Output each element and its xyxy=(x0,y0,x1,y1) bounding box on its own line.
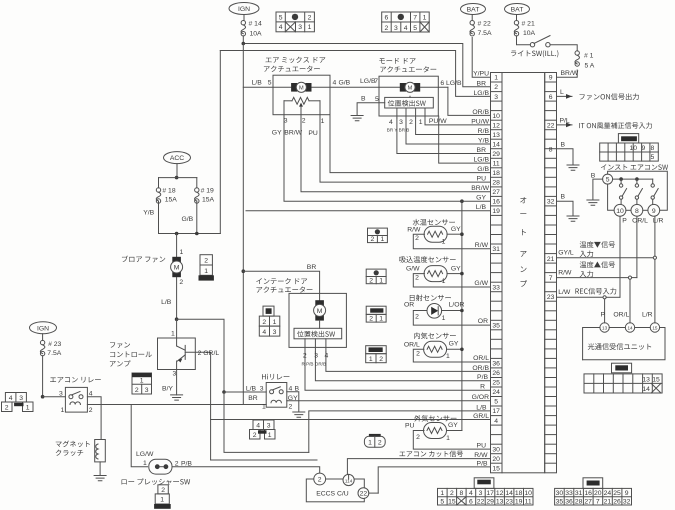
svg-text:3: 3 xyxy=(394,25,398,32)
svg-text:B: B xyxy=(591,173,596,180)
auto amp right pin column xyxy=(545,73,557,473)
fuse #18 15A xyxy=(156,188,160,192)
svg-text:G/B: G/B xyxy=(182,216,194,223)
svg-text:LG/B: LG/B xyxy=(446,80,462,87)
wire ACC rail up to LG/B run xyxy=(219,51,221,234)
svg-text:P: P xyxy=(622,218,627,225)
svg-text:R: R xyxy=(480,384,485,391)
Hi relay box xyxy=(266,383,287,408)
auto amp connector: left pin column xyxy=(491,73,503,473)
position SW box intake xyxy=(294,328,342,339)
connector grid sunload xyxy=(366,306,386,314)
svg-text:5: 5 xyxy=(606,177,610,184)
svg-text:15: 15 xyxy=(448,498,456,505)
wire B pin 8 to ground xyxy=(557,149,574,165)
svg-text:R/W: R/W xyxy=(474,452,488,459)
svg-text:BAT: BAT xyxy=(511,7,524,14)
inst SW unit circle 5 xyxy=(603,174,613,184)
svg-text:7: 7 xyxy=(596,498,600,505)
svg-text:9: 9 xyxy=(625,490,629,497)
connector grid Hi relay xyxy=(253,420,274,430)
svg-text:2: 2 xyxy=(415,235,419,242)
ECCS pin 114 xyxy=(343,474,354,485)
svg-text:14: 14 xyxy=(642,386,650,393)
wire R intake door SW pin2 to pin 24 xyxy=(305,352,491,390)
svg-text:1: 1 xyxy=(140,378,144,385)
svg-text:# 1: # 1 xyxy=(584,53,594,60)
svg-text:31: 31 xyxy=(492,246,500,253)
svg-text:GY: GY xyxy=(288,395,298,402)
svg-text:11: 11 xyxy=(525,498,532,505)
wire L/B via Z route to pin 17 xyxy=(309,411,491,453)
ECCS C/U xyxy=(211,459,317,461)
svg-text:2: 2 xyxy=(409,119,413,126)
svg-text:2: 2 xyxy=(204,258,208,265)
fuse #22 7.5A xyxy=(470,21,474,25)
svg-text:23: 23 xyxy=(547,294,555,301)
svg-text:3: 3 xyxy=(145,387,149,394)
svg-text:1: 1 xyxy=(321,118,325,125)
svg-text:1: 1 xyxy=(494,75,498,82)
svg-text:3: 3 xyxy=(267,423,271,430)
svg-text:3: 3 xyxy=(173,370,177,377)
label air mix door actuator xyxy=(266,57,326,63)
connector grid aircon relay xyxy=(5,393,26,403)
svg-text:17: 17 xyxy=(486,490,494,497)
svg-text:L/R: L/R xyxy=(642,311,653,318)
sensor common line GY xyxy=(461,201,463,430)
svg-text:36: 36 xyxy=(492,361,500,368)
fan control amp box xyxy=(158,338,196,370)
svg-text:PU: PU xyxy=(405,423,415,430)
connector grid fan amp xyxy=(132,373,152,394)
svg-text:32: 32 xyxy=(547,199,555,206)
svg-text:BR: BR xyxy=(477,147,487,154)
svg-text:B: B xyxy=(561,141,566,148)
wire L/B branch right xyxy=(177,319,224,392)
ECCS pin 2 xyxy=(314,473,326,485)
svg-text:29: 29 xyxy=(492,151,500,158)
svg-text:28: 28 xyxy=(492,180,500,187)
svg-text:ECCS C/U: ECCS C/U xyxy=(316,490,349,497)
svg-text:2: 2 xyxy=(161,487,165,494)
svg-text:14: 14 xyxy=(505,490,513,497)
svg-text:22: 22 xyxy=(477,498,485,505)
svg-text:26: 26 xyxy=(613,498,621,505)
svg-text:35: 35 xyxy=(556,498,564,505)
svg-text:6: 6 xyxy=(469,498,473,505)
inst aircon SW connector grid xyxy=(618,134,638,143)
wire B circle5 to ground xyxy=(593,179,603,199)
svg-text:G/OR: G/OR xyxy=(472,394,489,401)
svg-text:GY: GY xyxy=(451,265,461,272)
svg-text:# 23: # 23 xyxy=(48,341,61,348)
air mix door actuator box xyxy=(273,75,330,115)
svg-text:L/W: L/W xyxy=(558,289,571,296)
pot terminals down xyxy=(283,101,285,119)
svg-text:BR: BR xyxy=(477,80,487,87)
svg-text:Y/B: Y/B xyxy=(478,138,489,145)
connector grid top right xyxy=(382,12,430,32)
wire Hi relay B to ground xyxy=(287,392,299,412)
svg-text:PU: PU xyxy=(477,442,487,449)
wire L/W REC signal pin 23 xyxy=(557,296,605,298)
mode SW pin stubs xyxy=(396,108,398,118)
svg-text:2: 2 xyxy=(415,275,419,282)
svg-text:2 GR/L: 2 GR/L xyxy=(198,350,220,357)
svg-text:L: L xyxy=(560,89,564,96)
svg-text:3: 3 xyxy=(314,352,318,359)
wire L/B to pin 19 xyxy=(246,210,491,212)
SW rail xyxy=(613,178,653,180)
svg-text:G/W: G/W xyxy=(406,266,420,273)
svg-text:20: 20 xyxy=(594,490,602,497)
svg-text:# 21: # 21 xyxy=(522,21,535,28)
svg-text:R/B: R/B xyxy=(478,128,490,135)
svg-text:Y/PU: Y/PU xyxy=(473,70,489,77)
label mode door actuator xyxy=(379,58,415,64)
wire P/L IT ON signal from pin 22 xyxy=(557,124,573,126)
wire B mode SW pin5 to ground xyxy=(357,103,385,116)
wire L/B to Hi relay xyxy=(224,391,266,393)
svg-text:L/OR: L/OR xyxy=(449,301,465,308)
svg-text:13: 13 xyxy=(602,326,608,331)
svg-text:12: 12 xyxy=(496,490,504,497)
svg-text:2: 2 xyxy=(369,277,373,284)
svg-text:13: 13 xyxy=(642,377,650,384)
svg-text:23: 23 xyxy=(505,498,513,505)
fuse #19 15A xyxy=(195,188,199,192)
svg-text:4: 4 xyxy=(325,352,329,359)
svg-text:1: 1 xyxy=(180,249,184,256)
wire relay coil out xyxy=(87,404,266,406)
wire OR/B intake door SW pin4 to pin 26 xyxy=(326,352,491,371)
wiper arrow air mix pot xyxy=(300,104,302,108)
wire OR sunload sensor to pin 35 xyxy=(413,311,490,326)
connector grid intake 2x2 xyxy=(263,306,274,316)
wire mode motor right exit xyxy=(421,86,448,88)
svg-text:IGN: IGN xyxy=(238,6,250,13)
svg-text:L/B: L/B xyxy=(161,299,172,306)
svg-text:2: 2 xyxy=(308,14,312,21)
svg-text:7: 7 xyxy=(549,275,553,282)
svg-text:10: 10 xyxy=(492,113,500,120)
svg-text:1: 1 xyxy=(446,435,450,442)
svg-text:8: 8 xyxy=(460,490,464,497)
mode door actuator box xyxy=(379,76,438,116)
fuse #1 5A xyxy=(575,51,579,55)
svg-text:3: 3 xyxy=(284,118,288,125)
svg-text:6: 6 xyxy=(549,94,553,101)
svg-text:22: 22 xyxy=(360,491,368,498)
wire G/B air mix to pin 18 xyxy=(330,87,491,172)
svg-text:1: 1 xyxy=(379,316,383,323)
svg-text:11: 11 xyxy=(493,161,500,168)
svg-text:GY: GY xyxy=(476,195,486,202)
wire LG/B from ACC line to pin 3 xyxy=(220,51,490,97)
svg-text:3: 3 xyxy=(260,385,264,392)
svg-text:24: 24 xyxy=(492,389,500,396)
junction IGN feed xyxy=(242,42,246,46)
svg-text:32: 32 xyxy=(623,498,631,505)
svg-text:G/B: G/B xyxy=(339,80,351,87)
wire GY air mix pot pin3 to pin 16 xyxy=(284,119,491,201)
svg-text:1: 1 xyxy=(369,356,373,363)
wire P/B to pin 15 xyxy=(378,467,490,493)
ECCS pin 22 xyxy=(358,488,369,499)
svg-text:8: 8 xyxy=(651,145,655,152)
wire BR/W air mix pot pin2 to pin 27 xyxy=(301,119,491,192)
connector oval ambient sensor xyxy=(369,434,381,437)
svg-text:18: 18 xyxy=(492,170,500,177)
connector grid top left xyxy=(276,12,314,32)
svg-text:1: 1 xyxy=(423,14,427,21)
svg-text:15: 15 xyxy=(652,326,658,331)
power oval IGN #14 xyxy=(229,3,259,15)
svg-text:2: 2 xyxy=(371,236,375,243)
svg-text:27: 27 xyxy=(492,189,500,196)
wire IGN vertical bus down xyxy=(242,44,244,405)
svg-text:2: 2 xyxy=(135,387,139,394)
svg-text:PU: PU xyxy=(477,176,487,183)
svg-text:R/W: R/W xyxy=(407,227,421,234)
connector grid optical unit xyxy=(612,363,632,373)
blower fan xyxy=(122,256,165,263)
wire GR/L fan amp branch to pin 4 xyxy=(211,419,491,421)
svg-text:2: 2 xyxy=(416,351,420,358)
wire PU air mix pot pin1 to pin 28 xyxy=(320,119,491,182)
svg-text:2: 2 xyxy=(89,407,93,414)
svg-text:2: 2 xyxy=(385,25,389,32)
svg-text:5: 5 xyxy=(268,80,272,87)
svg-text:21: 21 xyxy=(547,256,555,263)
magnet clutch box xyxy=(95,440,106,462)
junction L/B split xyxy=(175,317,179,321)
svg-text:OR/B: OR/B xyxy=(472,109,489,116)
svg-text:25: 25 xyxy=(492,380,500,387)
motor M air mix xyxy=(291,83,297,92)
svg-text:OR/L: OR/L xyxy=(632,218,648,225)
wire GR/L output xyxy=(185,352,210,460)
svg-text:Y/B: Y/B xyxy=(143,210,154,217)
svg-text:1: 1 xyxy=(171,331,175,338)
svg-text:1: 1 xyxy=(442,239,446,246)
svg-text:20: 20 xyxy=(492,456,500,463)
svg-text:M: M xyxy=(408,85,413,91)
svg-text:2: 2 xyxy=(179,279,183,286)
svg-text:2: 2 xyxy=(369,316,373,323)
svg-text:2: 2 xyxy=(289,403,293,410)
svg-text:4: 4 xyxy=(333,80,337,87)
svg-text:7.5A: 7.5A xyxy=(478,30,492,37)
svg-text:7: 7 xyxy=(413,14,417,21)
junction L/B at Hi relay xyxy=(222,390,226,394)
svg-text:27: 27 xyxy=(584,498,592,505)
svg-text:B: B xyxy=(561,194,566,201)
svg-text:# 22: # 22 xyxy=(478,21,491,28)
svg-text:8: 8 xyxy=(549,146,553,153)
svg-text:1: 1 xyxy=(442,315,446,322)
svg-text:1: 1 xyxy=(440,490,444,497)
svg-text:15A: 15A xyxy=(165,197,178,204)
svg-text:6: 6 xyxy=(440,80,444,87)
wire light switch to fuse 1 xyxy=(550,45,577,51)
svg-text:3: 3 xyxy=(479,490,483,497)
svg-text:30: 30 xyxy=(556,490,564,497)
svg-text:IGN: IGN xyxy=(37,325,49,332)
wire BR/W from fuse 1 to pin 9 xyxy=(557,70,578,77)
svg-text:OR: OR xyxy=(404,302,414,309)
svg-text:R P/B OR/B: R P/B OR/B xyxy=(302,361,327,366)
wire R/W aircon cut signal to pin 20 xyxy=(347,459,490,479)
svg-text:2: 2 xyxy=(253,432,257,439)
svg-text:28: 28 xyxy=(575,498,583,505)
connector grid low pressure SW xyxy=(158,485,168,494)
potentiometer air mix xyxy=(292,97,309,104)
svg-text:1: 1 xyxy=(381,236,385,243)
bottom connector table left xyxy=(474,478,494,489)
wire PU ambient sensor to pin 30 xyxy=(413,431,490,450)
sunload sensor xyxy=(410,294,451,301)
svg-text:GR/L: GR/L xyxy=(473,413,489,420)
svg-text:35: 35 xyxy=(492,323,500,330)
wire LG/B mode box to pin 11 xyxy=(439,116,491,163)
svg-text:13: 13 xyxy=(492,132,500,139)
svg-text:P/B: P/B xyxy=(477,374,488,381)
svg-text:1: 1 xyxy=(268,432,272,439)
svg-text:GY: GY xyxy=(272,129,282,136)
svg-text:14: 14 xyxy=(627,326,633,331)
wire B pin 32 to ground xyxy=(557,201,574,216)
fuse #21 10A xyxy=(514,21,518,25)
wire L/B feed to air mix motor xyxy=(243,86,290,88)
wire fuse bottom rail xyxy=(158,201,160,233)
svg-text:15: 15 xyxy=(652,377,660,384)
wire ACC fuse rail top xyxy=(159,177,197,179)
svg-text:OR: OR xyxy=(478,318,488,325)
svg-text:GY: GY xyxy=(451,226,461,233)
incar sensor xyxy=(414,332,456,339)
svg-text:1: 1 xyxy=(143,460,147,467)
svg-text:1: 1 xyxy=(61,407,65,414)
wire G/W intake air temp sensor to pin 33 xyxy=(413,274,490,287)
label intake door actuator xyxy=(256,278,307,284)
svg-text:1: 1 xyxy=(308,24,312,31)
optical communication receiver unit xyxy=(600,323,609,332)
svg-text:15: 15 xyxy=(492,465,500,472)
svg-text:L/B: L/B xyxy=(246,385,257,392)
svg-text:2: 2 xyxy=(379,356,383,363)
wire PU/W position SW pin1 to pin 12 xyxy=(425,118,491,125)
intake SW pin stubs xyxy=(304,339,306,352)
svg-text:14: 14 xyxy=(492,141,500,148)
svg-text:2: 2 xyxy=(378,440,382,447)
svg-text:5: 5 xyxy=(651,154,655,161)
svg-text:G/W: G/W xyxy=(474,280,488,287)
wire L/B down to Z-route xyxy=(224,392,309,452)
wire R/W temp-up signal pin 7 xyxy=(557,277,631,279)
svg-text:10A: 10A xyxy=(250,31,263,38)
svg-text:1: 1 xyxy=(446,353,450,360)
svg-text:10: 10 xyxy=(524,490,532,497)
svg-text:5: 5 xyxy=(413,25,417,32)
Hi relay xyxy=(262,374,289,380)
svg-text:7.5A: 7.5A xyxy=(47,350,61,357)
svg-text:LG/B: LG/B xyxy=(474,157,490,164)
svg-text:OR/L: OR/L xyxy=(473,355,489,362)
svg-text:7: 7 xyxy=(374,78,378,85)
motor M intake door xyxy=(315,300,324,306)
svg-text:26: 26 xyxy=(492,370,500,377)
fuse #23 7.5A xyxy=(40,340,44,344)
wire OR/L incar sensor to pin 36 xyxy=(413,349,490,362)
svg-text:1: 1 xyxy=(368,440,372,447)
wire R/W water temp sensor to pin 31 xyxy=(413,234,490,249)
svg-text:BAT: BAT xyxy=(467,7,480,14)
water temp sensor xyxy=(413,219,455,226)
svg-text:4: 4 xyxy=(404,25,408,32)
svg-text:M: M xyxy=(174,264,180,271)
svg-text:3: 3 xyxy=(273,329,277,336)
svg-text:1: 1 xyxy=(160,497,164,504)
fuse #14 10A xyxy=(241,21,245,25)
svg-text:18: 18 xyxy=(515,490,523,497)
svg-text:21: 21 xyxy=(604,498,612,505)
fan control amp xyxy=(110,342,130,348)
aircon relay xyxy=(50,377,101,383)
svg-text:5: 5 xyxy=(440,498,444,505)
wire BR feed intake motor xyxy=(242,269,246,273)
text auto amp (vertical) xyxy=(520,197,526,203)
bottom connector table right xyxy=(583,478,603,489)
svg-text:4: 4 xyxy=(389,119,393,126)
svg-text:22: 22 xyxy=(547,122,555,129)
svg-text:4: 4 xyxy=(262,329,266,336)
svg-text:OR/L: OR/L xyxy=(404,341,420,348)
SW contacts xyxy=(619,184,622,187)
svg-text:L/B: L/B xyxy=(252,80,263,87)
connector grid intake air temp xyxy=(366,269,386,276)
wire GY/L temp-down signal pin 21 xyxy=(557,257,655,259)
svg-text:4: 4 xyxy=(494,418,498,425)
wire relay contact out to clutch xyxy=(87,397,101,440)
svg-text:BR/W: BR/W xyxy=(561,70,579,77)
connector grid blower 2/1 xyxy=(200,255,212,265)
position SW box mode xyxy=(385,97,434,108)
svg-text:3: 3 xyxy=(19,395,23,402)
magnet clutch xyxy=(56,441,90,448)
svg-text:29: 29 xyxy=(486,498,494,505)
svg-text:2: 2 xyxy=(303,352,307,359)
svg-text:17: 17 xyxy=(492,408,500,415)
svg-text:16: 16 xyxy=(584,490,592,497)
svg-text:L/B: L/B xyxy=(476,204,487,211)
svg-text:1: 1 xyxy=(262,403,266,410)
svg-text:BR: BR xyxy=(307,264,317,271)
wire low pressure SW to ECCS xyxy=(172,467,320,473)
wire Hi relay GY output xyxy=(286,400,288,402)
svg-text:# 18: # 18 xyxy=(162,188,175,195)
svg-text:15A: 15A xyxy=(202,197,215,204)
svg-text:1: 1 xyxy=(419,119,423,126)
svg-text:1: 1 xyxy=(379,277,383,284)
intake actuator box xyxy=(289,293,346,347)
svg-text:2: 2 xyxy=(415,313,419,320)
svg-text:2: 2 xyxy=(450,490,454,497)
svg-text:3: 3 xyxy=(59,391,63,398)
svg-text:3: 3 xyxy=(298,24,302,31)
svg-text:4: 4 xyxy=(469,490,473,497)
